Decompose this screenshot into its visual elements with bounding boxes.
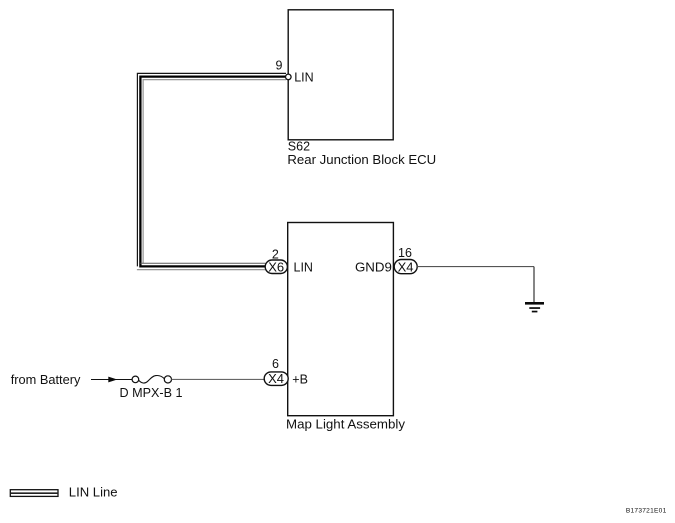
svg-text:Map Light Assembly: Map Light Assembly <box>286 416 405 431</box>
wire GND9 to ground <box>417 266 534 268</box>
svg-text:+B: +B <box>292 372 308 386</box>
wire LIN bus from S62 pin 9 to Map Light X6 pin 2 (triple-line) <box>137 73 286 269</box>
legend LIN line sample <box>10 490 58 497</box>
svg-text:6: 6 <box>272 357 279 371</box>
ECU box S62 (Rear Junction Block ECU) <box>288 10 393 140</box>
svg-text:16: 16 <box>398 246 412 260</box>
svg-text:D MPX-B 1: D MPX-B 1 <box>120 386 183 400</box>
wire vertical drop to ground <box>533 267 535 303</box>
ground symbol <box>525 302 544 312</box>
svg-text:LIN Line: LIN Line <box>69 485 118 500</box>
svg-text:X6: X6 <box>268 259 284 274</box>
connector X4 (pin 6) <box>264 372 288 386</box>
connector X6 (pin 2) <box>265 260 287 274</box>
Map Light Assembly box <box>288 223 394 416</box>
svg-text:9: 9 <box>276 59 283 73</box>
svg-text:X4: X4 <box>268 371 284 386</box>
svg-text:LIN: LIN <box>294 70 313 84</box>
connector X4 (pin 16) <box>394 260 417 274</box>
fuse D MPX-B 1 (circuit breaker symbol) <box>132 376 139 383</box>
svg-text:from Battery: from Battery <box>11 372 81 387</box>
pin 9 terminal circle <box>286 74 292 80</box>
arrowhead <box>108 377 117 383</box>
wire from battery with arrow <box>91 379 132 381</box>
svg-text:Rear Junction Block ECU: Rear Junction Block ECU <box>287 152 436 167</box>
svg-text:LIN: LIN <box>294 261 313 275</box>
svg-text:X4: X4 <box>398 259 414 274</box>
wire fuse to +B pin 6 <box>172 378 265 380</box>
svg-text:B173721E01: B173721E01 <box>626 507 667 514</box>
svg-text:GND9: GND9 <box>355 260 392 275</box>
